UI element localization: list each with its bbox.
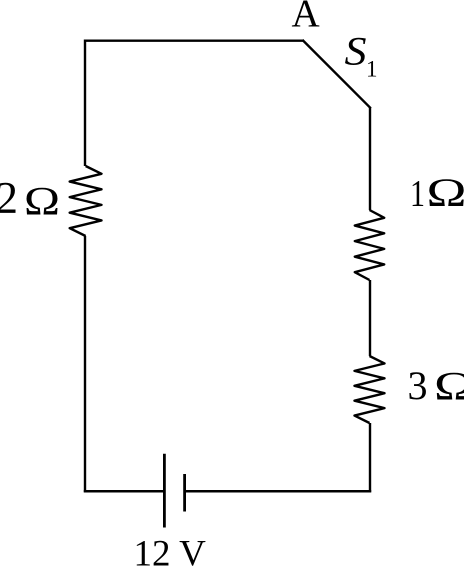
- svg-text:S: S: [345, 28, 367, 73]
- switch S1 blade (diagonal): [302, 40, 370, 108]
- svg-text:Ω: Ω: [24, 179, 60, 224]
- svg-text:Ω: Ω: [434, 363, 464, 408]
- resistor R 3ohm zigzag: [355, 356, 385, 423]
- svg-text:A: A: [292, 0, 320, 35]
- svg-text:2: 2: [0, 173, 18, 223]
- wire bottom right: [185, 490, 372, 493]
- svg-text:Ω: Ω: [427, 170, 464, 215]
- svg-text:1: 1: [410, 173, 425, 215]
- wire right middle: [369, 280, 371, 356]
- battery B1 short plate (negative): [183, 474, 186, 512]
- wire left upper: [84, 40, 86, 167]
- resistor R 1ohm zigzag: [355, 210, 384, 280]
- svg-text:1: 1: [366, 56, 378, 81]
- battery B1 long plate (positive): [163, 454, 166, 528]
- wire top (top-left corner to node A): [85, 40, 303, 42]
- resistor R 2ohm zigzag: [70, 166, 102, 236]
- wire bottom left: [84, 490, 165, 493]
- svg-text:3: 3: [408, 363, 428, 408]
- svg-text:12 V: 12 V: [134, 533, 207, 567]
- wire left lower: [84, 236, 86, 492]
- wire right upper: [369, 108, 371, 211]
- wire right lower: [369, 423, 371, 492]
